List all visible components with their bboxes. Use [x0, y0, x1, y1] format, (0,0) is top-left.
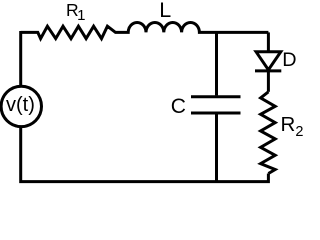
wire capacitor branch bottom	[215, 114, 218, 181]
wire diode branch top	[267, 32, 270, 51]
wire diode to R2	[267, 71, 270, 92]
diode D triangle	[256, 52, 281, 70]
diode D cathode bar	[255, 69, 281, 72]
wire capacitor branch top	[215, 32, 218, 95]
capacitor C plates	[191, 97, 241, 113]
label D	[282, 49, 296, 72]
label R2	[281, 113, 304, 140]
resistor R2 zigzag	[261, 92, 276, 174]
source v(t) circle	[1, 86, 41, 126]
wire left vertical (bottom) + bottom wire + right riser	[21, 126, 269, 181]
wire left vertical (top)	[19, 31, 22, 87]
label L	[159, 0, 171, 23]
label R1	[66, 0, 87, 24]
label C	[171, 95, 186, 119]
label v(t)	[6, 94, 35, 117]
wire top run with resistor R1 and inductor L	[21, 22, 269, 38]
